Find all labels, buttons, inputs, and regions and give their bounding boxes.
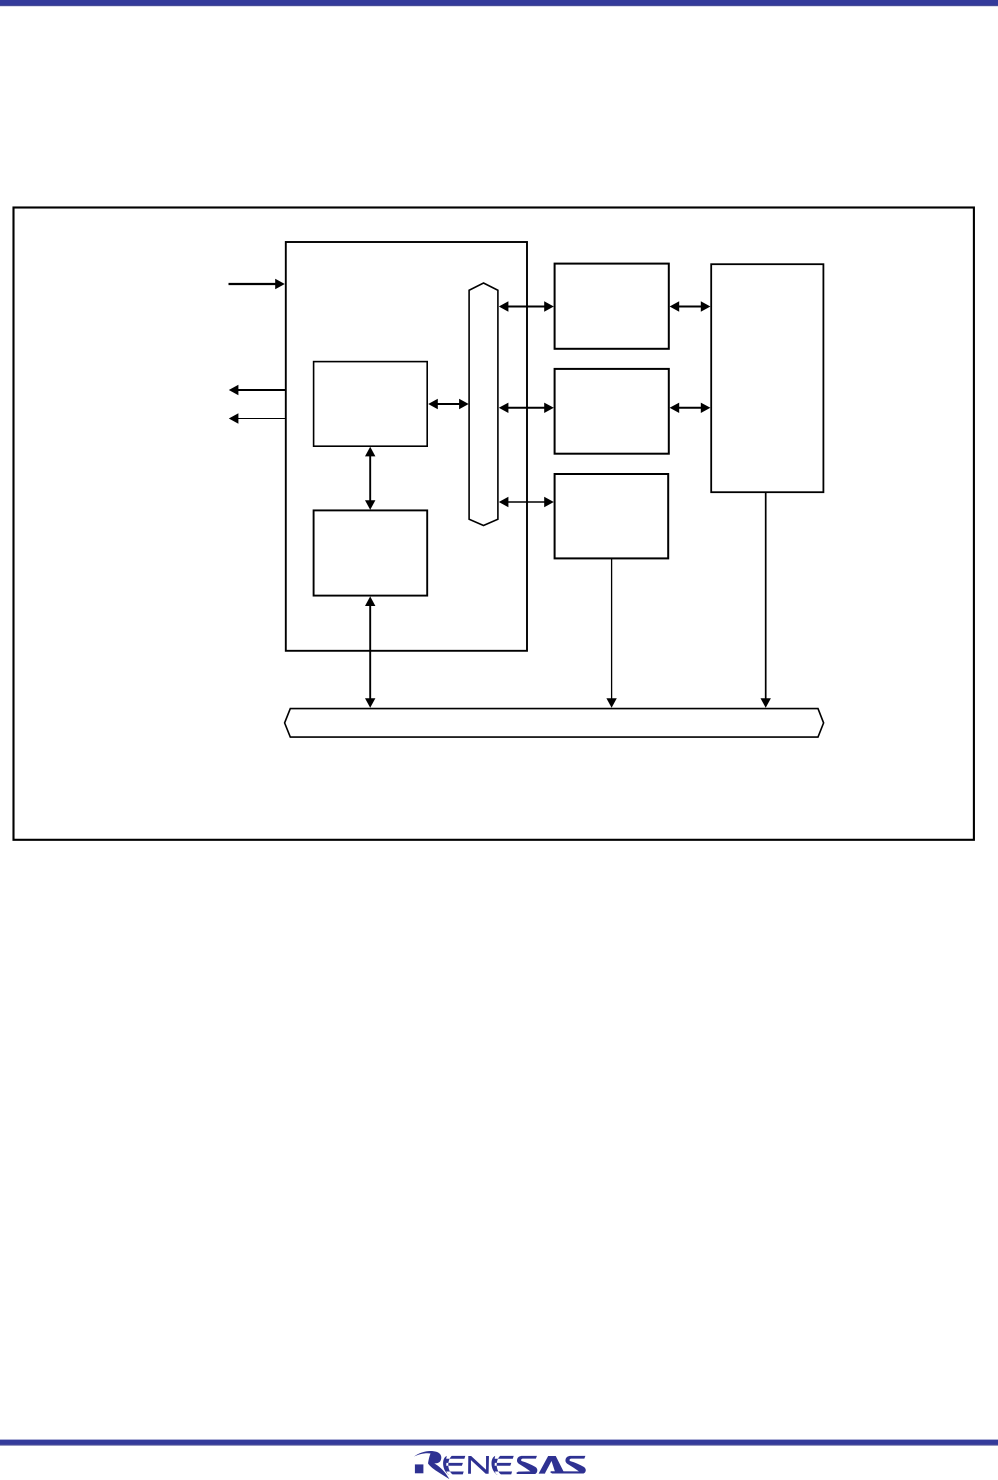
wire: output arrow 2 from CPU bbox=[229, 413, 285, 423]
internal bus (vertical hexagon) bbox=[469, 283, 498, 526]
logo letter S1 bbox=[516, 1456, 537, 1474]
logo square dot bbox=[415, 1464, 424, 1473]
block B1 (upper inner block) bbox=[314, 362, 428, 447]
wire: B1 to internal bus (double arrow) bbox=[428, 399, 469, 409]
figure frame bbox=[14, 208, 974, 840]
logo letter S2 bbox=[550, 1456, 586, 1474]
header bar bbox=[0, 0, 998, 5]
wire: internal bus to block C (double arrow) bbox=[499, 497, 554, 507]
logo letter E1 bbox=[443, 1456, 465, 1475]
block B2 (lower inner block) bbox=[314, 510, 428, 595]
wire: internal bus to block B (double arrow) bbox=[499, 403, 554, 413]
wire: output arrow 1 from CPU bbox=[229, 385, 285, 395]
wire: block D down to system bus bbox=[761, 493, 771, 708]
wire: input arrow into CPU bbox=[229, 279, 285, 289]
logo letter E2 bbox=[492, 1456, 514, 1475]
block C (lower middle block) bbox=[555, 474, 669, 558]
block A (top middle block) bbox=[555, 264, 669, 349]
system bus (horizontal hexagon) bbox=[285, 709, 824, 738]
footer rule bbox=[0, 1440, 998, 1445]
block: CPU enclosure bbox=[286, 242, 527, 651]
wire: B2 to system bus (vertical double arrow) bbox=[365, 596, 375, 707]
logo letter N bbox=[468, 1456, 489, 1474]
wire: block B to block D (double arrow) bbox=[670, 403, 711, 413]
wire: B1 to B2 (vertical double arrow) bbox=[365, 447, 375, 510]
wire: block C down to system bus bbox=[606, 559, 616, 708]
block D (tall right block) bbox=[711, 264, 823, 492]
block B (center middle block) bbox=[555, 369, 669, 454]
logo letter R bbox=[414, 1451, 450, 1479]
wire: block A to block D (double arrow) bbox=[670, 301, 711, 311]
wire: internal bus to block A (double arrow) bbox=[499, 301, 554, 311]
logo letter A bbox=[539, 1456, 565, 1474]
